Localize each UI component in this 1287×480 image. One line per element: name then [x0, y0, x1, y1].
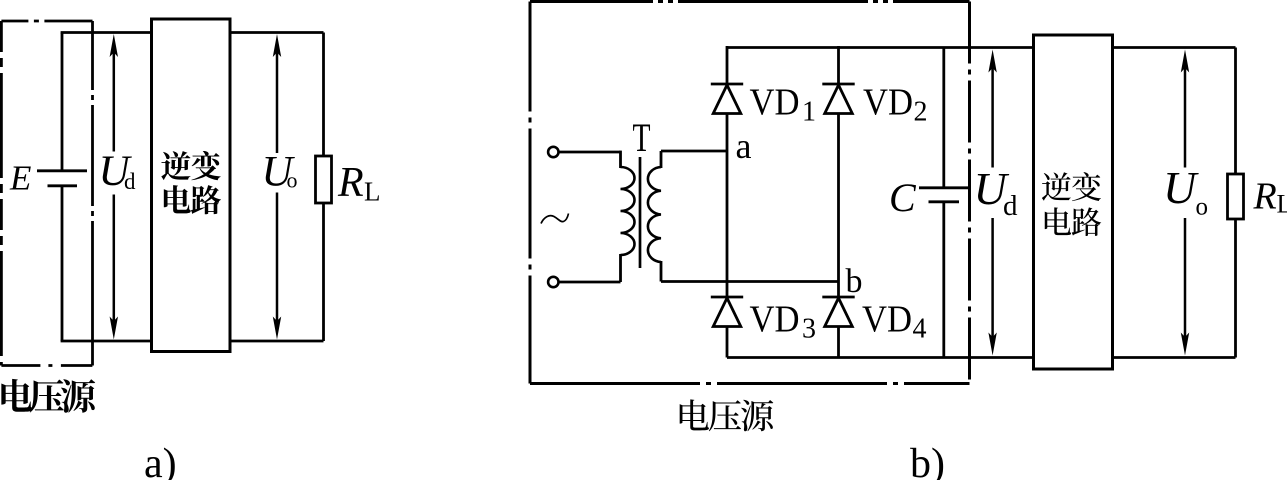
svg-text:VD: VD [862, 299, 912, 341]
svg-text:VD: VD [750, 299, 800, 341]
svg-text:VD: VD [863, 82, 913, 124]
svg-text:R: R [337, 160, 364, 206]
svg-text:L: L [364, 177, 381, 207]
svg-text:L: L [1277, 190, 1287, 219]
svg-text:E: E [9, 159, 31, 198]
svg-text:2: 2 [914, 97, 928, 128]
svg-text:d: d [124, 169, 136, 194]
svg-text:4: 4 [913, 314, 927, 345]
svg-text:C: C [889, 175, 917, 220]
svg-text:T: T [633, 115, 651, 160]
svg-text:o: o [287, 168, 298, 193]
svg-text:1: 1 [802, 97, 816, 128]
svg-text:R: R [1253, 176, 1277, 218]
svg-text:a: a [736, 126, 752, 166]
svg-text:d: d [1003, 190, 1018, 222]
svg-text:b: b [846, 263, 863, 300]
svg-text:VD: VD [750, 82, 800, 124]
svg-text:a): a) [144, 441, 177, 480]
svg-text:o: o [1196, 194, 1209, 221]
svg-text:3: 3 [802, 314, 816, 345]
svg-text:U: U [1163, 162, 1199, 213]
svg-text:b): b) [910, 441, 945, 480]
